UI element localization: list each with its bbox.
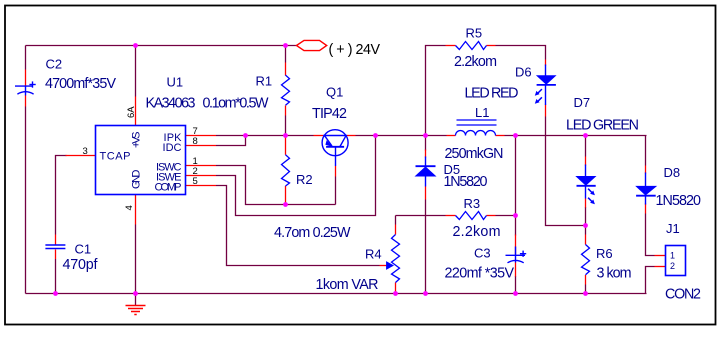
D7 cathode lead [585, 199, 587, 208]
junction node R4 on ground rail [393, 291, 398, 296]
svg-text:R2: R2 [296, 172, 313, 187]
svg-text:J1: J1 [666, 221, 680, 236]
R6 top lead [585, 235, 587, 245]
svg-text:IDC: IDC [163, 142, 182, 154]
svg-text:L1: L1 [475, 105, 489, 120]
svg-text:C2: C2 [46, 57, 63, 72]
pin 5 stub [186, 185, 217, 187]
R1 top lead [285, 63, 287, 76]
wire R5 right to D6 [496, 46, 546, 60]
wire C1 bottom [55, 259, 57, 294]
potentiometer R4 [392, 235, 400, 283]
svg-text:2.2kom: 2.2kom [453, 224, 501, 240]
junction node D6/D7/R6 [583, 223, 588, 228]
svg-text:LED RED: LED RED [465, 86, 519, 102]
wire D8 to J1 [646, 214, 655, 256]
svg-text:1N5820: 1N5820 [444, 174, 488, 190]
svg-text:4.7om 0.25W: 4.7om 0.25W [274, 225, 351, 241]
svg-text:U1: U1 [167, 75, 184, 90]
D5 cathode lead [425, 150, 427, 158]
wire pin5 to R4 wiper [216, 186, 380, 266]
wire D6 down to R6 node [546, 117, 586, 226]
R4 bottom lead [395, 283, 397, 294]
junction node R3/C3 [513, 213, 518, 218]
wire pin8 to rail [216, 136, 246, 146]
pin numbers [83, 106, 198, 211]
C1 top lead [55, 235, 57, 245]
op-amp U1 KA34063 box [96, 126, 186, 195]
wire U1 VS branch [135, 46, 137, 97]
junction node U1 VS on 24V rail [133, 43, 138, 48]
wire U1 GND branch [135, 225, 137, 294]
wire R4 top [395, 216, 397, 225]
wire R3 left [396, 215, 446, 217]
svg-text:Q1: Q1 [326, 85, 343, 100]
svg-text:0.1om*0.5W: 0.1om*0.5W [203, 96, 270, 112]
svg-text:2.2kom: 2.2kom [454, 54, 497, 70]
wire TCAP corner [56, 156, 67, 235]
D8 cathode lead [645, 204, 647, 214]
R1 bottom lead [285, 106, 287, 116]
svg-text:4700mf*35V: 4700mf*35V [45, 76, 116, 92]
svg-text:D8: D8 [664, 165, 681, 180]
J1 pin 1 stub [655, 255, 667, 257]
C2 top lead [25, 70, 27, 86]
svg-text:1: 1 [670, 251, 675, 261]
svg-text:R5: R5 [466, 26, 483, 41]
wire C3 top [515, 136, 517, 236]
pin 1 stub [186, 165, 217, 167]
inductor L1 [456, 120, 497, 136]
resistor R3 [456, 212, 487, 220]
R4 wiper lead [380, 265, 387, 267]
junction node R1 on 24V rail [283, 43, 288, 48]
wire main rail left [216, 135, 314, 137]
R4 wiper arrow [386, 261, 394, 270]
transistor Q1 [322, 130, 348, 166]
svg-text:6A: 6A [126, 106, 137, 118]
junction node U1 GND on ground rail [133, 291, 138, 296]
pin 4 stub [135, 195, 137, 225]
wire pin1 to base node [216, 166, 336, 205]
wire D7 top [585, 136, 587, 157]
junction node C1 on ground rail [53, 291, 58, 296]
wire D8 top [645, 136, 647, 166]
wire D7 to R6 [585, 207, 587, 235]
wire main rail right [505, 135, 647, 137]
resistor R5 [456, 42, 487, 50]
svg-text:250mkGN: 250mkGN [445, 146, 504, 162]
svg-text:( + ) 24V: ( + ) 24V [329, 42, 381, 58]
pin 8 stub [186, 145, 217, 147]
svg-text:3 kom: 3 kom [597, 266, 632, 282]
R2 bottom lead [285, 186, 287, 205]
junction node C3 on ground rail [513, 291, 518, 296]
svg-text:TCAP: TCAP [100, 151, 131, 163]
resistor R6 [582, 245, 590, 275]
C1 bottom lead [55, 250, 57, 260]
R6 bottom lead [585, 275, 587, 285]
D6 cathode lead [545, 105, 547, 117]
svg-text:2: 2 [670, 261, 675, 271]
wire R5 left corner [426, 46, 446, 136]
wire gnd stem [135, 294, 137, 306]
svg-text:R6: R6 [596, 246, 613, 261]
wire D5 top [425, 136, 427, 151]
wire R1 R2 mid [285, 116, 287, 137]
L1 right lead [496, 135, 505, 137]
wire left vertical C2 bottom [25, 107, 27, 294]
svg-text:R3: R3 [464, 196, 481, 211]
J1 pin 2 stub [655, 266, 667, 268]
Q1 base lead [335, 166, 337, 177]
wire top rail 24V [26, 45, 297, 47]
D5 anode lead [425, 187, 427, 200]
junction node R5/D5 on switch rail [423, 133, 428, 138]
C3 bottom lead [515, 263, 517, 277]
diode D8 [635, 173, 657, 205]
red pin stubs [26, 46, 667, 294]
wire D5 bottom [425, 200, 427, 294]
svg-text:TIP42: TIP42 [312, 106, 347, 122]
wire R6 bottom [585, 285, 587, 294]
svg-text:C3: C3 [474, 246, 491, 261]
pin 7 stub [186, 135, 217, 137]
svg-text:D6: D6 [515, 65, 532, 80]
R5 right lead [487, 45, 496, 47]
Q1 emitter lead [314, 135, 324, 137]
capacitor C2 [15, 81, 36, 95]
R5 left lead [446, 45, 456, 47]
LED D6 [535, 65, 557, 106]
resistor R2 [282, 155, 290, 186]
svg-text:3: 3 [83, 146, 88, 157]
connector J1 box [666, 246, 686, 276]
D8 anode lead [645, 166, 647, 174]
wire Q1 base down [335, 177, 337, 205]
wire J1 pin2 to ground [646, 267, 655, 294]
svg-text:8: 8 [193, 136, 198, 147]
D7 anode lead [585, 157, 587, 166]
connector pin labels [670, 251, 675, 272]
svg-text:1N5820: 1N5820 [656, 193, 702, 209]
pin 2 stub [186, 175, 217, 177]
svg-text:LED GREEN: LED GREEN [566, 118, 639, 134]
R3 left lead [446, 215, 456, 217]
ground symbol [126, 306, 146, 315]
junction node pin8 on switch rail [243, 133, 248, 138]
C3 top lead [515, 235, 517, 255]
svg-text:CON2: CON2 [665, 287, 701, 303]
wire bottom ground rail [26, 293, 647, 295]
junction node R1/R2 on switch rail [283, 133, 288, 138]
junction node ISWE branch on switch rail [373, 133, 378, 138]
svg-text:1kom VAR: 1kom VAR [316, 277, 379, 293]
svg-text:R4: R4 [365, 247, 382, 262]
C2 bottom lead [25, 96, 27, 107]
L1 left lead [447, 135, 456, 137]
svg-text:C1: C1 [75, 242, 92, 257]
svg-text:5: 5 [193, 176, 198, 187]
wire R3 right [496, 215, 516, 217]
svg-text:KA34063: KA34063 [146, 96, 196, 112]
junction node R2 bottom / Q1 base [283, 202, 288, 207]
wire C3 bottom [515, 276, 517, 294]
junction node C3 branch on rail [513, 133, 518, 138]
resistor R1 [282, 75, 290, 105]
R2 top lead [285, 136, 287, 155]
wire main rail mid [356, 135, 447, 137]
svg-text:4: 4 [124, 205, 135, 210]
capacitor C1 [45, 245, 65, 249]
pin 6 stub [135, 97, 137, 126]
R3 right lead [487, 215, 496, 217]
junction node D5 on ground rail [423, 291, 428, 296]
svg-text:COMP: COMP [155, 182, 182, 194]
pin 3 stub [66, 155, 96, 157]
diode D5 [415, 157, 437, 187]
pin names [100, 132, 183, 194]
svg-text:D7: D7 [574, 95, 591, 110]
R4 top lead [395, 225, 397, 235]
D6 anode lead [545, 60, 547, 66]
LED D7 [575, 165, 596, 205]
junction node D7 branch on rail [583, 133, 588, 138]
svg-text:220mf *35V: 220mf *35V [445, 266, 515, 282]
power port (+) 24V [297, 40, 327, 50]
wire pin2 to emitter node [216, 136, 376, 216]
capacitor C3 [506, 247, 527, 263]
Q1 collector lead [347, 135, 356, 137]
svg-text:470pf: 470pf [63, 257, 98, 273]
junction node R6 on ground rail [583, 291, 588, 296]
svg-text:GND: GND [131, 169, 143, 189]
wire R1 top [285, 46, 287, 63]
svg-text:R1: R1 [256, 74, 273, 89]
wire left vertical C2 top [25, 46, 27, 70]
svg-text:+VS: +VS [131, 132, 143, 149]
